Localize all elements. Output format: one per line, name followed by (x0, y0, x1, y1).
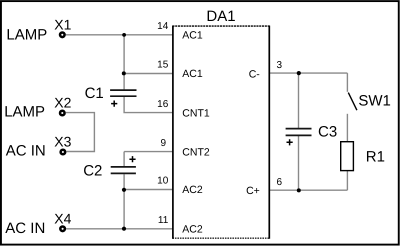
svg-text:C1: C1 (85, 85, 104, 102)
svg-text:X3: X3 (54, 133, 71, 149)
svg-text:16: 16 (157, 99, 169, 110)
svg-text:LAMP: LAMP (4, 104, 45, 121)
svg-text:AC1: AC1 (182, 30, 203, 42)
svg-text:X1: X1 (54, 16, 71, 32)
svg-text:AC IN: AC IN (6, 143, 46, 160)
svg-text:14: 14 (157, 21, 169, 32)
svg-text:6: 6 (277, 177, 283, 188)
svg-text:CNT1: CNT1 (182, 107, 210, 119)
svg-text:AC2: AC2 (182, 184, 203, 196)
svg-text:LAMP: LAMP (6, 26, 47, 43)
svg-text:C-: C- (249, 69, 261, 81)
svg-text:X2: X2 (54, 95, 71, 111)
svg-text:X4: X4 (54, 210, 71, 226)
svg-text:DA1: DA1 (206, 8, 235, 25)
svg-text:CNT2: CNT2 (182, 146, 210, 158)
svg-text:9: 9 (160, 138, 166, 149)
svg-text:15: 15 (157, 59, 169, 70)
svg-text:AC1: AC1 (182, 68, 203, 80)
svg-text:AC2: AC2 (182, 224, 203, 236)
svg-text:R1: R1 (366, 149, 385, 166)
svg-text:SW1: SW1 (358, 93, 391, 110)
svg-text:C2: C2 (83, 162, 102, 179)
svg-text:10: 10 (157, 176, 169, 187)
svg-text:3: 3 (277, 60, 283, 71)
svg-text:AC IN: AC IN (5, 220, 45, 237)
svg-text:C+: C+ (246, 185, 260, 197)
svg-text:11: 11 (158, 215, 169, 226)
svg-text:C3: C3 (318, 123, 337, 140)
